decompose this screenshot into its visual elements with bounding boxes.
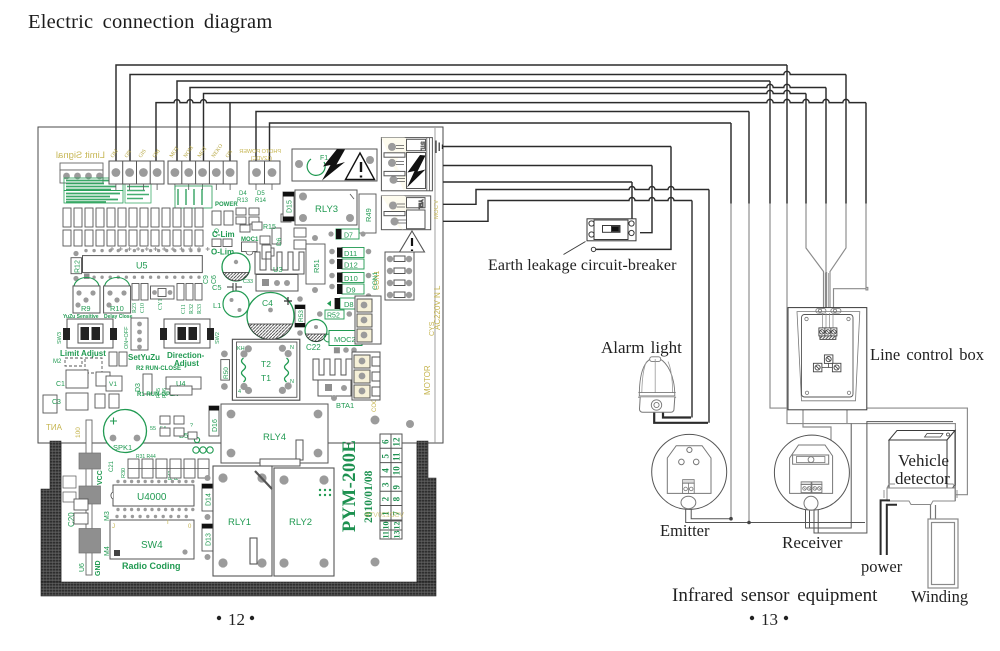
svg-text:Infrared sensor equipment: Infrared sensor equipment (672, 585, 878, 606)
svg-text:J: J (112, 524, 115, 530)
terminal group3 photo power (249, 161, 280, 190)
svg-text:C-Lim: C-Lim (212, 230, 235, 239)
svg-text:D6: D6 (276, 237, 283, 246)
svg-text:V1: V1 (109, 381, 117, 388)
svg-text:SW3: SW3 (57, 332, 63, 344)
svg-text:6: 6 (381, 439, 391, 444)
svg-text:Earth leakage circuit-breaker: Earth leakage circuit-breaker (488, 257, 677, 274)
svg-text:(12VDC): (12VDC) (250, 156, 272, 162)
resistor R50 (221, 351, 230, 390)
svg-text:8: 8 (392, 496, 402, 501)
wire power pair (881, 500, 897, 555)
svg-text:M2: M2 (53, 359, 62, 365)
optocoupler MOC2 (324, 331, 362, 346)
heatsink BTA1 (313, 359, 352, 401)
page number 13 (750, 610, 788, 629)
pads row 2 (63, 230, 203, 246)
potentiometer R10 (104, 286, 131, 313)
svg-text:D13: D13 (206, 533, 213, 546)
wire w2 (130, 71, 846, 161)
svg-text:R10: R10 (110, 304, 124, 313)
svg-text:C33: C33 (243, 279, 253, 285)
svg-text:Emitter: Emitter (660, 521, 710, 540)
svg-text:12: 12 (392, 437, 402, 447)
IC U5 (83, 249, 203, 279)
switch SW3 (63, 319, 117, 348)
pads cluster mid (212, 208, 306, 259)
page number 12 (217, 610, 254, 629)
speaker SPK1 (104, 410, 147, 453)
capacitor L1 (223, 291, 249, 317)
svg-text:9: 9 (392, 485, 402, 490)
mid cluster xtal (132, 284, 202, 301)
svg-text:4: 4 (238, 389, 241, 395)
diodes D11 D12 D10 D9 (329, 248, 371, 299)
svg-text:F1: F1 (320, 155, 328, 162)
diode D7 (328, 229, 365, 240)
svg-text:D15: D15 (287, 200, 294, 213)
potentiometer R9 (73, 286, 100, 313)
case frame bottom rail (41, 582, 436, 596)
wire v671 to breaker pigtail (596, 147, 671, 250)
wire v632 to breaker (631, 182, 633, 219)
terminal group1 (109, 161, 164, 190)
svg-text:Limit Adjust: Limit Adjust (60, 349, 106, 358)
wire w5 (204, 90, 807, 161)
svg-text:100: 100 (75, 427, 82, 438)
svg-text:CON1: CON1 (372, 272, 379, 290)
svg-text:R14: R14 (255, 198, 267, 204)
diode D14 (202, 475, 213, 520)
relay RLY4 (221, 404, 328, 466)
svg-text:T2: T2 (261, 359, 271, 369)
svg-text:C21: C21 (109, 460, 115, 472)
connector CYS (355, 296, 381, 344)
svg-text:KH: KH (237, 346, 245, 352)
wire v709 to alarm (708, 190, 710, 423)
svg-text:RLY3: RLY3 (315, 204, 338, 215)
svg-text:D9: D9 (346, 286, 356, 295)
svg-text:C4: C4 (262, 298, 273, 308)
earth leakage circuit-breaker (564, 219, 637, 255)
svg-text:Winding: Winding (911, 587, 968, 606)
junction dots (729, 517, 733, 521)
resistor R53 (295, 296, 305, 336)
wire v692 to alarm (691, 201, 693, 418)
wire w6 riser (229, 103, 231, 161)
wire ground line (443, 146, 671, 148)
wire w4 (190, 84, 826, 161)
emitter (652, 434, 727, 509)
pads small group (95, 386, 192, 408)
fuse F1 (292, 149, 377, 181)
svg-text:BTA1: BTA1 (336, 401, 354, 410)
svg-text:4: 4 (381, 468, 391, 473)
wire funnel left (806, 204, 824, 308)
svg-text:R53: R53 (298, 310, 305, 322)
svg-text:2: 2 (381, 496, 391, 501)
svg-text:D8: D8 (344, 300, 354, 309)
svg-text:C11: C11 (181, 304, 187, 314)
diode D15 (283, 192, 294, 221)
svg-text:ANT: ANT (46, 423, 62, 432)
wire v652 to breaker (640, 166, 652, 233)
svg-text:D5: D5 (257, 191, 265, 197)
svg-text:11: 11 (382, 531, 391, 539)
wire funnel right (830, 204, 846, 308)
winding (928, 519, 958, 588)
svg-text:55: 55 (150, 426, 156, 432)
svg-text:POWER: POWER (215, 202, 238, 208)
svg-text:SetYuZu: SetYuZu (128, 353, 160, 362)
wire r2 (443, 198, 692, 222)
wire w1 (116, 65, 787, 161)
svg-text:Electric connection diagram: Electric connection diagram (28, 11, 273, 33)
svg-text:11: 11 (392, 452, 402, 461)
connector AC power (381, 138, 432, 191)
svg-text:GND: GND (95, 560, 102, 576)
warning triangle (400, 231, 425, 252)
line control box (788, 308, 867, 410)
receiver (774, 435, 849, 510)
svg-text:N: N (290, 345, 294, 351)
svg-text:R51: R51 (312, 259, 321, 273)
svg-text:MOTOR: MOTOR (423, 365, 432, 395)
svg-text:CY1: CY1 (158, 299, 164, 310)
svg-text:C10: C10 (140, 303, 146, 313)
svg-text:T1: T1 (261, 373, 271, 383)
svg-text:U3: U3 (273, 265, 283, 274)
solder pads left (63, 453, 101, 553)
wire w7 (256, 112, 749, 162)
svg-text:Receiver: Receiver (782, 533, 843, 552)
svg-text:R49: R49 (364, 208, 373, 222)
svg-text:R9: R9 (81, 304, 91, 313)
transformer T1 T2 (232, 339, 299, 400)
green label block A (64, 178, 151, 203)
svg-text:R32: R32 (189, 304, 195, 314)
svg-text:ON=OFF: ON=OFF (124, 326, 130, 349)
connector J0 left (60, 163, 103, 183)
wire cable lines (825, 272, 828, 308)
relay RLY1 (213, 466, 272, 576)
svg-text:?: ? (190, 423, 193, 429)
wire alarm thick pair (654, 412, 708, 422)
wire w6 jumper (156, 99, 866, 161)
svg-text:MOC1: MOC1 (241, 237, 259, 243)
silkscreen pin labels (110, 143, 234, 159)
svg-text:SW4: SW4 (141, 540, 163, 551)
svg-text:C22: C22 (306, 343, 321, 352)
svg-text:Limit Signal: Limit Signal (56, 150, 105, 161)
svg-text:10: 10 (382, 522, 391, 530)
DIP switch SW4 (110, 515, 194, 559)
wire emitter 2 (686, 493, 865, 522)
capacitor C4 (247, 293, 294, 340)
wire funnel mid (825, 204, 827, 308)
pads cluster q (160, 416, 197, 439)
IC U4000 (111, 480, 195, 511)
svg-text:MOC'V: MOC'V (434, 200, 440, 219)
svg-text:SPK1: SPK1 (113, 443, 132, 452)
switch SW2 (160, 319, 214, 348)
transistor dots (193, 437, 213, 453)
green label block B (175, 186, 212, 208)
jumper header ON=OFF (131, 318, 148, 350)
wire m2 (443, 181, 632, 183)
capacitor C1 (43, 370, 110, 413)
capacitor C7 half-hatched (222, 253, 250, 281)
svg-text:U4000: U4000 (137, 492, 167, 503)
case frame left wall (41, 441, 61, 582)
resistor R51 (306, 235, 325, 293)
wire receiver 1 (806, 424, 852, 528)
IC U4 (166, 377, 201, 389)
svg-text:D10: D10 (344, 274, 358, 283)
wire cascade dark stubs (731, 65, 866, 204)
board outline lower (61, 128, 435, 582)
svg-text:13: 13 (761, 610, 778, 629)
svg-text:MOC2: MOC2 (334, 335, 356, 344)
resistor R12 (71, 251, 90, 281)
case frame right wall (417, 441, 436, 582)
pot arcs (74, 278, 130, 288)
wire w3 (177, 81, 770, 161)
wire v770 to vehicle detector (770, 204, 967, 495)
pads plus row (110, 247, 210, 251)
svg-text:D4: D4 (239, 191, 247, 197)
pads row 1 (63, 208, 203, 227)
svg-text:C5: C5 (212, 283, 222, 292)
svg-text:R33: R33 (197, 304, 203, 314)
svg-text:C3: C3 (52, 399, 61, 406)
wire w8 (270, 123, 732, 161)
svg-text:R13: R13 (237, 198, 249, 204)
svg-text:U5: U5 (136, 261, 148, 271)
wire winding pair (931, 505, 936, 519)
svg-text:R23: R23 (132, 303, 138, 313)
relay RLY2 (274, 468, 334, 576)
svg-text:13: 13 (393, 531, 402, 539)
svg-text:STL: STL (419, 142, 425, 151)
board base (38, 127, 443, 443)
alarm light (638, 357, 676, 412)
resistor R52 (317, 310, 352, 320)
svg-text:12: 12 (228, 610, 245, 629)
svg-text:R30: R30 (121, 468, 127, 478)
svg-text:RLY1: RLY1 (228, 517, 251, 528)
svg-text:RLY4: RLY4 (263, 432, 286, 443)
svg-text:5: 5 (381, 454, 391, 459)
header pads rows (128, 459, 209, 478)
wire m1 (443, 165, 652, 167)
svg-text:3: 3 (381, 482, 391, 487)
wire r1 (443, 187, 709, 205)
svg-text:R15: R15 (263, 224, 276, 231)
wire emitter 1 (691, 493, 731, 518)
svg-text:D16: D16 (212, 419, 219, 432)
svg-text:PYM-200E: PYM-200E (340, 440, 360, 532)
antenna strip (46, 420, 92, 575)
wire linebox bottom left (803, 410, 831, 447)
svg-text:VSD220V?B: VSD220V?B (364, 512, 404, 519)
svg-text:RLY2: RLY2 (289, 517, 312, 528)
svg-text:Line control box: Line control box (870, 345, 985, 364)
wire v866 elbow (834, 204, 868, 308)
svg-text:R52: R52 (327, 313, 340, 320)
svg-text:M4: M4 (104, 546, 111, 556)
svg-text:VCC: VCC (97, 470, 104, 485)
svg-text:C9: C9 (203, 275, 210, 284)
svg-text:Alarm light: Alarm light (601, 338, 682, 357)
svg-text:SW2: SW2 (215, 332, 221, 344)
svg-text:Radio Coding: Radio Coding (122, 561, 181, 571)
resistor R49 (359, 194, 376, 233)
diode D8 (327, 298, 359, 309)
svg-text:D12: D12 (344, 261, 358, 270)
wire receiver 2 (814, 422, 953, 533)
diode D16 (209, 406, 219, 436)
svg-text:N: N (290, 379, 294, 385)
heatsink U3 (255, 252, 304, 291)
relay RLY3 (295, 190, 357, 225)
svg-text:YEL: YEL (417, 200, 423, 210)
svg-text:12: 12 (393, 522, 402, 530)
silkscreen R23 C10 C11 (132, 299, 203, 314)
svg-text:power: power (861, 557, 903, 576)
small rect pair (65, 352, 127, 373)
svg-text:D7: D7 (344, 233, 353, 240)
optocoupler MOC1 (241, 237, 259, 255)
regulator V1 (106, 376, 122, 391)
terminal group2 (168, 161, 237, 190)
wire v787 to vehicle detector (787, 204, 955, 501)
wire linebox bottom right (846, 410, 848, 424)
misc pads right (371, 416, 380, 425)
terminal grid (380, 434, 402, 539)
svg-text:R12: R12 (75, 260, 82, 273)
svg-text:D11: D11 (344, 249, 357, 258)
wire v731 to emitter (730, 204, 732, 519)
svg-text:Vehicle: Vehicle (898, 451, 949, 470)
connector CON1 (385, 252, 414, 300)
svg-text:D14: D14 (206, 493, 213, 506)
diode D13 (202, 524, 213, 560)
svg-text:D3: D3 (135, 383, 142, 392)
connector motor out (381, 196, 430, 230)
jumper slash (255, 471, 272, 489)
svg-text:10: 10 (392, 466, 402, 476)
capacitor C22 (305, 320, 327, 342)
svg-text:Adjust: Adjust (174, 359, 199, 368)
vehicle detector (884, 431, 957, 505)
svg-text:C1: C1 (56, 381, 65, 388)
wire v749 to emitter (748, 204, 750, 523)
svg-text:PHOTO POWER: PHOTO POWER (239, 149, 281, 155)
connector MOTOR (352, 352, 380, 400)
svg-text:L1: L1 (213, 301, 221, 310)
svg-text:detector: detector (895, 469, 950, 488)
svg-text:U6: U6 (79, 563, 86, 572)
ground symbol (436, 141, 442, 154)
svg-text:R50: R50 (223, 367, 230, 379)
svg-text:CYS: CYS (429, 321, 436, 336)
